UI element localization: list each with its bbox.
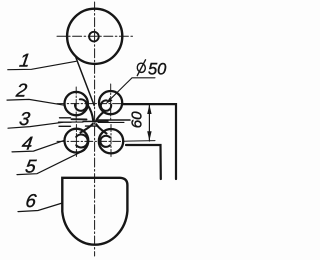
wire exit to guide (98, 119, 131, 121)
label 1 underline and leader (8, 61, 76, 69)
wire exit lower strand (98, 121, 124, 123)
pulley U (big wheel) (67, 9, 122, 64)
label 2 underline and leader (7, 99, 65, 105)
svg-text:6: 6 (24, 190, 38, 211)
roller TL (65, 92, 88, 115)
dim 60 bottom arrow (147, 131, 151, 141)
label dia50 phi symbol (136, 62, 146, 73)
dim 60 top arrow (147, 105, 151, 115)
label dia50 leader (107, 78, 155, 103)
roller BL (65, 129, 89, 153)
main vertical centerline (94, 2, 96, 256)
dim 60 bottom extension line (124, 140, 155, 143)
svg-text:50: 50 (148, 61, 167, 79)
bottom row centerline (57, 140, 124, 142)
svg-text:1: 1 (18, 49, 31, 70)
label 6 underline and leader (18, 203, 62, 212)
label 5 underline and leader (17, 150, 85, 174)
wire entry segment a (60, 117, 71, 119)
svg-text:60: 60 (128, 111, 145, 128)
pulley hub (89, 32, 99, 42)
roller TL vertical centerline (75, 87, 77, 122)
roller BL vertical centerline (75, 125, 77, 158)
wire entry segment c (59, 125, 71, 127)
wire under roller TL thick (72, 118, 87, 120)
svg-text:2: 2 (14, 79, 29, 100)
svg-text:3: 3 (18, 108, 32, 129)
label 4 underline and leader (12, 140, 65, 152)
guide outer L (122, 104, 176, 179)
wire S-arc lower-left (81, 124, 93, 133)
roller BR vertical centerline (110, 125, 112, 159)
wire entry segment b (59, 121, 72, 123)
svg-text:4: 4 (21, 133, 34, 154)
label dia50 arrowhead (106, 98, 112, 104)
roller TR (99, 91, 122, 114)
wire under roller TL thin (71, 121, 83, 123)
wire S-arc upper-left (87, 105, 93, 122)
roller TL inner groove (75, 99, 87, 111)
wire from pulley to rollers (76, 57, 95, 106)
wire S-arc upper-right (96, 111, 105, 122)
pulley horizontal centerline (57, 35, 133, 37)
wire S-arc lower-right (96, 124, 106, 133)
label 3 underline and leader (8, 122, 63, 128)
wire mid bottom segment (86, 125, 99, 127)
roller BL inner groove (76, 135, 87, 148)
roller BR (99, 129, 123, 153)
roller BR inner groove (100, 136, 110, 147)
top row centerline (57, 103, 124, 105)
wire through nip (83, 120, 108, 122)
roller TR vertical centerline (110, 84, 112, 121)
dim 60 line (148, 104, 150, 141)
bunker (receiver) outline (62, 178, 127, 245)
roller TR inner groove (101, 100, 111, 110)
guide inner L (126, 145, 161, 179)
